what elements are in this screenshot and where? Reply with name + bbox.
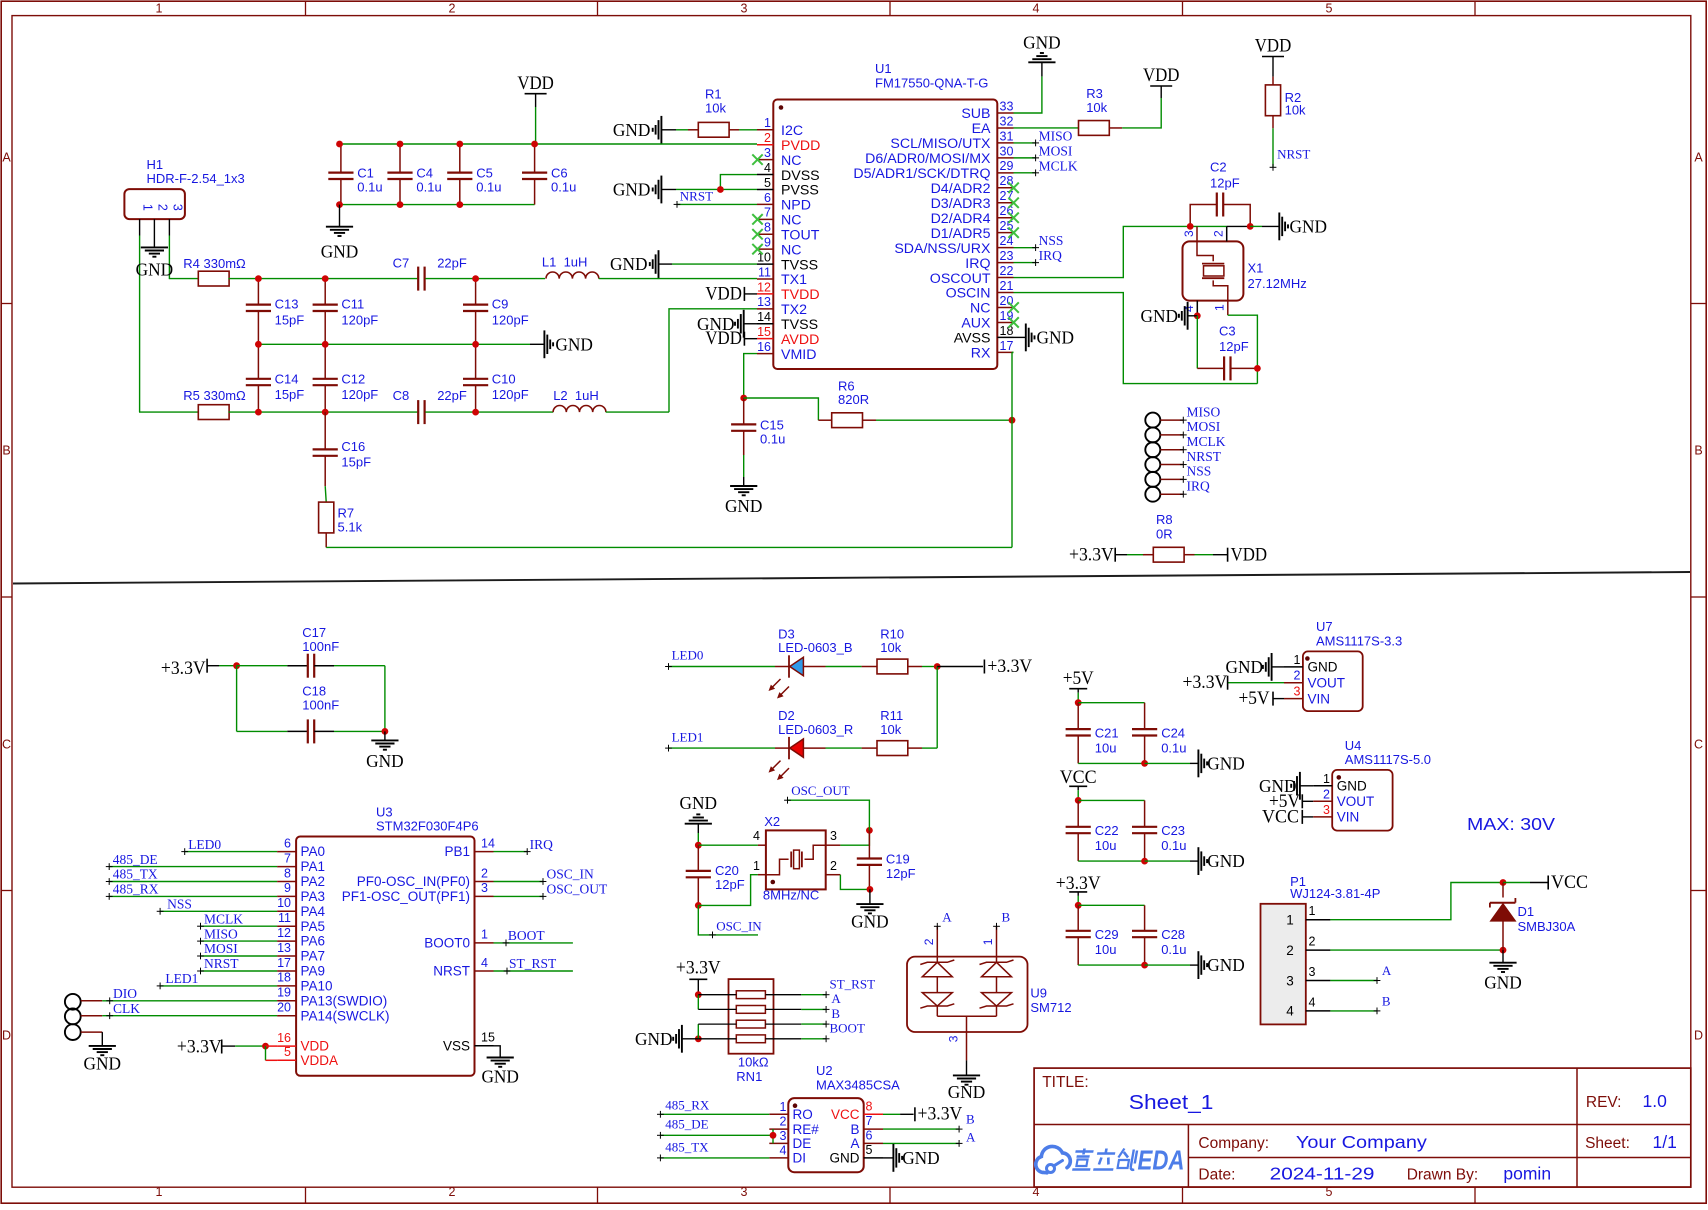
svg-text:100nF: 100nF (302, 698, 339, 713)
svg-text:BOOT: BOOT (830, 1021, 865, 1036)
svg-text:10: 10 (277, 896, 291, 910)
svg-text:1: 1 (1309, 904, 1316, 918)
svg-text:BOOT0: BOOT0 (424, 936, 470, 951)
svg-text:485_DE: 485_DE (665, 1116, 708, 1131)
svg-text:VCC: VCC (1551, 872, 1588, 893)
svg-text:VDD: VDD (301, 1039, 330, 1054)
svg-text:22pF: 22pF (437, 255, 467, 270)
svg-text:+5V: +5V (1063, 668, 1094, 689)
svg-text:12: 12 (757, 280, 771, 294)
svg-text:GND: GND (1207, 955, 1245, 975)
svg-text:GND: GND (902, 1148, 940, 1168)
svg-text:0.1u: 0.1u (357, 180, 382, 195)
svg-text:PF1-OSC_OUT(PF1): PF1-OSC_OUT(PF1) (342, 889, 470, 904)
svg-text:TVDD: TVDD (781, 287, 820, 303)
svg-text:5: 5 (1326, 2, 1333, 16)
svg-text:1: 1 (156, 1185, 163, 1199)
svg-text:NC: NC (781, 242, 802, 258)
svg-text:ST_RST: ST_RST (830, 976, 876, 991)
svg-text:NRST: NRST (680, 188, 713, 203)
svg-text:D3/ADR3: D3/ADR3 (931, 196, 991, 212)
svg-text:VIN: VIN (1337, 810, 1360, 825)
svg-text:WJ124-3.81-4P: WJ124-3.81-4P (1290, 886, 1380, 901)
svg-text:7: 7 (284, 851, 291, 865)
svg-text:GND: GND (555, 334, 593, 354)
svg-text:13: 13 (277, 941, 291, 955)
svg-text:C17: C17 (302, 625, 326, 640)
svg-text:Drawn By:: Drawn By: (1407, 1167, 1479, 1184)
svg-text:10u: 10u (1095, 838, 1117, 853)
svg-text:VCC: VCC (1060, 767, 1097, 788)
svg-text:PA14(SWCLK): PA14(SWCLK) (301, 1008, 390, 1023)
svg-text:22pF: 22pF (437, 388, 467, 403)
svg-text:OSCIN: OSCIN (946, 286, 991, 302)
svg-text:OSC_IN: OSC_IN (716, 918, 762, 933)
svg-text:MCLK: MCLK (204, 911, 243, 926)
svg-text:OSCOUT: OSCOUT (930, 271, 991, 287)
svg-text:820R: 820R (838, 392, 869, 407)
svg-text:NPD: NPD (781, 198, 811, 214)
svg-text:TOUT: TOUT (781, 227, 820, 243)
svg-text:C23: C23 (1161, 823, 1185, 838)
svg-text:1: 1 (764, 116, 771, 130)
svg-text:B: B (850, 1122, 859, 1137)
svg-text:VDD: VDD (517, 73, 554, 94)
svg-text:NC: NC (781, 213, 802, 229)
svg-text:13: 13 (757, 295, 771, 309)
svg-text:MCLK: MCLK (1039, 158, 1078, 173)
svg-text:3: 3 (1309, 965, 1316, 979)
svg-text:2: 2 (1294, 669, 1301, 683)
svg-text:VMID: VMID (781, 347, 816, 363)
svg-text:3: 3 (1182, 230, 1196, 237)
svg-text:0.1u: 0.1u (1161, 838, 1186, 853)
svg-text:23: 23 (1000, 249, 1014, 263)
svg-text:RO: RO (793, 1107, 813, 1122)
svg-text:C5: C5 (476, 165, 493, 180)
svg-text:GND: GND (1337, 779, 1367, 794)
svg-text:PA4: PA4 (301, 904, 326, 919)
svg-text:A: A (2, 151, 11, 165)
svg-text:10u: 10u (1095, 740, 1117, 755)
svg-text:I2C: I2C (781, 123, 803, 139)
svg-text:8: 8 (764, 221, 771, 235)
svg-text:0R: 0R (1156, 527, 1173, 542)
svg-text:18: 18 (277, 971, 291, 985)
svg-text:30: 30 (1000, 144, 1014, 158)
svg-text:MISO: MISO (1187, 404, 1221, 419)
svg-text:12pF: 12pF (1210, 175, 1240, 190)
svg-text:2024-11-29: 2024-11-29 (1270, 1164, 1375, 1184)
svg-text:A: A (1694, 151, 1703, 165)
svg-text:C15: C15 (760, 417, 784, 432)
svg-text:12pF: 12pF (1219, 339, 1249, 354)
svg-text:VDD: VDD (705, 283, 742, 304)
svg-text:PA5: PA5 (301, 919, 326, 934)
svg-text:MAX: 30V: MAX: 30V (1467, 814, 1555, 834)
svg-text:GND: GND (1207, 851, 1245, 871)
svg-text:LED-0603_B: LED-0603_B (778, 640, 852, 655)
svg-text:GND: GND (725, 496, 763, 516)
svg-text:LED0: LED0 (188, 837, 221, 852)
svg-text:5: 5 (764, 176, 771, 190)
svg-text:AMS1117S-3.3: AMS1117S-3.3 (1316, 633, 1402, 648)
svg-text:11: 11 (758, 265, 771, 279)
svg-text:16: 16 (757, 340, 771, 354)
svg-text:C13: C13 (275, 297, 299, 312)
svg-text:A: A (1382, 963, 1392, 978)
svg-text:+3.3V: +3.3V (1183, 672, 1228, 693)
svg-text:U1: U1 (875, 61, 892, 76)
svg-text:AUX: AUX (961, 316, 991, 332)
svg-text:BOOT: BOOT (508, 928, 546, 943)
svg-text:pomin: pomin (1503, 1164, 1551, 1184)
svg-text:3: 3 (1323, 803, 1330, 817)
svg-text:10k: 10k (1285, 102, 1306, 117)
svg-text:NSS: NSS (1187, 464, 1212, 479)
svg-text:10k: 10k (880, 640, 901, 655)
svg-text:EDA: EDA (1138, 1145, 1185, 1176)
svg-text:GND: GND (1207, 753, 1245, 773)
svg-text:C4: C4 (416, 165, 433, 180)
svg-text:MISO: MISO (204, 926, 238, 941)
svg-text:1: 1 (156, 2, 163, 16)
svg-text:X2: X2 (764, 814, 780, 829)
svg-text:IRQ: IRQ (1187, 479, 1211, 494)
svg-text:3: 3 (830, 829, 837, 843)
svg-text:1/1: 1/1 (1653, 1132, 1677, 1152)
svg-text:3: 3 (1294, 685, 1301, 699)
svg-text:GND: GND (481, 1067, 519, 1087)
svg-text:1: 1 (1286, 913, 1294, 928)
svg-text:1: 1 (141, 204, 155, 211)
svg-text:+3.3V: +3.3V (177, 1037, 222, 1058)
svg-text:A: A (966, 1130, 976, 1145)
svg-text:0.1u: 0.1u (1161, 740, 1186, 755)
svg-text:LED0: LED0 (672, 648, 704, 663)
svg-text:PA13(SWDIO): PA13(SWDIO) (301, 993, 388, 1008)
svg-text:MOSI: MOSI (1039, 143, 1073, 158)
svg-text:6: 6 (284, 836, 291, 850)
svg-text:R1: R1 (705, 86, 722, 101)
svg-text:1: 1 (481, 928, 488, 942)
svg-text:2: 2 (1323, 787, 1330, 801)
svg-text:4: 4 (1309, 995, 1316, 1009)
svg-text:L1 1uH: L1 1uH (542, 254, 588, 269)
svg-text:B: B (1694, 444, 1702, 458)
svg-text:VIN: VIN (1308, 691, 1331, 706)
svg-text:DI: DI (793, 1151, 807, 1166)
svg-text:19: 19 (277, 986, 291, 1000)
svg-text:100nF: 100nF (302, 639, 339, 654)
svg-text:STM32F030F4P6: STM32F030F4P6 (376, 819, 479, 834)
svg-text:7: 7 (764, 206, 771, 220)
svg-text:10k: 10k (880, 722, 901, 737)
svg-text:SCL/MISO/UTX: SCL/MISO/UTX (890, 136, 991, 152)
svg-text:+3.3V: +3.3V (918, 1104, 963, 1125)
svg-text:D4/ADR2: D4/ADR2 (931, 181, 991, 197)
svg-text:U9: U9 (1030, 985, 1047, 1000)
svg-text:C18: C18 (302, 684, 326, 699)
svg-text:1: 1 (1323, 772, 1330, 786)
svg-text:PA9: PA9 (301, 964, 326, 979)
svg-text:ST_RST: ST_RST (509, 956, 557, 971)
svg-text:10: 10 (757, 250, 771, 264)
svg-text:C8: C8 (393, 388, 410, 403)
svg-text:C3: C3 (1219, 323, 1236, 338)
svg-text:SDA/NSS/URX: SDA/NSS/URX (894, 241, 991, 257)
svg-text:12pF: 12pF (715, 877, 745, 892)
svg-text:SMBJ30A: SMBJ30A (1518, 919, 1576, 934)
svg-text:GND: GND (1308, 660, 1338, 675)
svg-text:12pF: 12pF (886, 866, 916, 881)
svg-text:17: 17 (277, 956, 291, 970)
svg-text:+3.3V: +3.3V (987, 656, 1032, 677)
svg-text:Sheet:: Sheet: (1585, 1135, 1630, 1152)
svg-text:6: 6 (866, 1129, 873, 1143)
svg-text:HDR-F-2.54_1x3: HDR-F-2.54_1x3 (147, 171, 245, 186)
svg-text:TX1: TX1 (781, 272, 807, 288)
svg-text:485_TX: 485_TX (113, 867, 158, 882)
svg-text:FM17550-QNA-T-G: FM17550-QNA-T-G (875, 76, 988, 91)
svg-text:+5V: +5V (1239, 688, 1270, 709)
svg-text:9: 9 (284, 881, 291, 895)
svg-text:R5 330mΩ: R5 330mΩ (183, 388, 246, 403)
svg-text:9: 9 (764, 236, 771, 250)
svg-text:A: A (850, 1136, 859, 1151)
svg-text:GND: GND (1226, 657, 1264, 677)
svg-text:GND: GND (610, 254, 648, 274)
svg-text:2: 2 (481, 866, 488, 880)
svg-text:3: 3 (481, 881, 488, 895)
svg-text:U2: U2 (816, 1063, 833, 1078)
svg-text:8: 8 (284, 866, 291, 880)
svg-text:1: 1 (753, 859, 760, 873)
svg-text:VDD: VDD (705, 328, 742, 349)
svg-text:L2 1uH: L2 1uH (553, 388, 599, 403)
svg-text:29: 29 (1000, 159, 1014, 173)
svg-text:GND: GND (366, 751, 404, 771)
svg-text:5: 5 (866, 1143, 873, 1157)
svg-text:10u: 10u (1095, 942, 1117, 957)
svg-text:Sheet_1: Sheet_1 (1129, 1091, 1214, 1114)
svg-text:2: 2 (830, 859, 837, 873)
svg-text:3: 3 (1286, 973, 1294, 988)
svg-text:4: 4 (481, 956, 488, 970)
svg-text:15pF: 15pF (275, 312, 305, 327)
svg-text:TX2: TX2 (781, 302, 807, 318)
svg-text:C11: C11 (341, 297, 364, 312)
svg-text:GND: GND (1141, 306, 1179, 326)
svg-text:C29: C29 (1095, 927, 1119, 942)
svg-text:4: 4 (753, 829, 760, 843)
svg-text:3: 3 (764, 146, 771, 160)
svg-text:PA2: PA2 (301, 874, 326, 889)
svg-text:VOUT: VOUT (1337, 794, 1375, 809)
svg-text:33: 33 (1000, 99, 1014, 113)
svg-text:C2: C2 (1210, 159, 1227, 174)
svg-text:AVDD: AVDD (781, 332, 819, 348)
svg-text:C12: C12 (341, 371, 365, 386)
svg-text:IRQ: IRQ (1039, 248, 1063, 263)
svg-text:D1: D1 (1518, 904, 1535, 919)
svg-text:27.12MHz: 27.12MHz (1248, 276, 1307, 291)
svg-text:485_RX: 485_RX (665, 1097, 710, 1112)
svg-text:C16: C16 (341, 439, 365, 454)
svg-text:2: 2 (1309, 935, 1316, 949)
svg-text:PA10: PA10 (301, 979, 333, 994)
svg-text:D: D (2, 1029, 11, 1043)
svg-text:MOSI: MOSI (204, 941, 238, 956)
svg-text:2: 2 (155, 204, 169, 211)
svg-text:LED-0603_R: LED-0603_R (778, 722, 853, 737)
svg-text:R7: R7 (338, 506, 355, 521)
svg-text:22: 22 (1000, 264, 1014, 278)
svg-text:U3: U3 (376, 805, 393, 820)
svg-text:NC: NC (970, 301, 991, 317)
svg-text:MOSI: MOSI (1187, 419, 1221, 434)
svg-text:C28: C28 (1161, 927, 1185, 942)
svg-text:SM712: SM712 (1030, 1000, 1071, 1015)
svg-text:NRST: NRST (204, 956, 239, 971)
svg-text:OSC_IN: OSC_IN (547, 867, 595, 882)
svg-text:0.1u: 0.1u (1161, 942, 1186, 957)
svg-text:NRST: NRST (433, 964, 470, 979)
svg-text:C21: C21 (1095, 725, 1119, 740)
svg-text:15pF: 15pF (275, 387, 305, 402)
svg-text:GND: GND (613, 120, 651, 140)
svg-text:C19: C19 (886, 851, 910, 866)
svg-text:C14: C14 (275, 371, 299, 386)
svg-text:1: 1 (981, 938, 995, 945)
svg-text:+3.3V: +3.3V (1069, 545, 1114, 566)
svg-text:RX: RX (971, 346, 991, 362)
svg-text:2: 2 (922, 938, 936, 945)
svg-text:4: 4 (1286, 1004, 1294, 1019)
svg-text:H1: H1 (147, 157, 164, 172)
svg-text:1: 1 (780, 1100, 787, 1114)
svg-text:RN1: RN1 (736, 1069, 762, 1084)
svg-text:0.1u: 0.1u (551, 180, 576, 195)
svg-text:IRQ: IRQ (530, 837, 554, 852)
svg-text:NSS: NSS (1039, 233, 1064, 248)
svg-text:MAX3485CSA: MAX3485CSA (816, 1078, 900, 1093)
svg-text:485_DE: 485_DE (113, 852, 158, 867)
svg-text:3: 3 (947, 1035, 961, 1042)
svg-text:VCC: VCC (1262, 806, 1299, 827)
svg-text:14: 14 (757, 310, 771, 324)
svg-text:NSS: NSS (167, 897, 192, 912)
svg-text:LED1: LED1 (165, 971, 198, 986)
svg-text:16: 16 (277, 1031, 291, 1045)
svg-text:PA0: PA0 (301, 844, 326, 859)
svg-text:B: B (1382, 993, 1391, 1008)
svg-text:B: B (966, 1112, 975, 1127)
svg-text:GND: GND (1290, 216, 1328, 236)
svg-text:R4 330mΩ: R4 330mΩ (183, 256, 246, 271)
svg-text:2: 2 (780, 1115, 787, 1129)
svg-text:MISO: MISO (1039, 129, 1073, 144)
svg-text:C6: C6 (551, 165, 568, 180)
svg-text:GND: GND (635, 1029, 673, 1049)
svg-text:0.1u: 0.1u (760, 432, 785, 447)
svg-text:10k: 10k (1086, 100, 1107, 115)
svg-text:3: 3 (170, 204, 184, 211)
svg-text:PVDD: PVDD (781, 138, 820, 154)
svg-text:VDD: VDD (1255, 36, 1292, 57)
svg-text:IRQ: IRQ (965, 256, 990, 272)
svg-text:B: B (831, 1006, 840, 1021)
svg-text:GND: GND (136, 260, 174, 280)
svg-text:AMS1117S-5.0: AMS1117S-5.0 (1345, 752, 1431, 767)
svg-text:NRST: NRST (1277, 147, 1310, 162)
svg-text:120pF: 120pF (341, 387, 378, 402)
svg-text:+3.3V: +3.3V (1056, 873, 1101, 894)
svg-text:5: 5 (284, 1045, 291, 1059)
svg-text:3: 3 (780, 1129, 787, 1143)
svg-text:+3.3V: +3.3V (161, 658, 206, 679)
svg-text:NRST: NRST (1187, 449, 1222, 464)
svg-text:GND: GND (1037, 327, 1075, 347)
svg-text:Your Company: Your Company (1296, 1132, 1427, 1152)
svg-text:1: 1 (1213, 304, 1227, 311)
svg-text:R8: R8 (1156, 512, 1173, 527)
svg-text:3: 3 (741, 1185, 748, 1199)
svg-text:VDD: VDD (1231, 545, 1268, 566)
svg-text:15: 15 (757, 325, 771, 339)
svg-text:8MHz/NC: 8MHz/NC (763, 887, 819, 902)
svg-text:PVSS: PVSS (781, 183, 819, 199)
svg-text:D: D (1694, 1029, 1703, 1043)
svg-text:PB1: PB1 (444, 844, 470, 859)
svg-text:X1: X1 (1248, 261, 1264, 276)
svg-text:4: 4 (1033, 2, 1040, 16)
svg-text:B: B (2, 444, 10, 458)
svg-text:2: 2 (449, 1185, 456, 1199)
svg-text:GND: GND (830, 1151, 860, 1166)
svg-text:R3: R3 (1086, 86, 1103, 101)
svg-text:D1/ADR5: D1/ADR5 (931, 226, 991, 242)
svg-text:120pF: 120pF (492, 312, 529, 327)
svg-text:EA: EA (972, 121, 991, 137)
svg-text:120pF: 120pF (341, 312, 378, 327)
svg-text:21: 21 (1000, 279, 1014, 293)
svg-text:+3.3V: +3.3V (676, 958, 721, 979)
svg-text:4: 4 (780, 1144, 787, 1158)
svg-text:D5/ADR1/SCK/DTRQ: D5/ADR1/SCK/DTRQ (853, 166, 990, 182)
svg-text:C24: C24 (1161, 725, 1185, 740)
svg-text:U7: U7 (1316, 619, 1333, 634)
svg-text:GND: GND (613, 179, 651, 199)
svg-text:5.1k: 5.1k (338, 520, 363, 535)
svg-text:GND: GND (321, 242, 359, 262)
svg-text:2: 2 (764, 131, 771, 145)
svg-text:1.0: 1.0 (1643, 1091, 1668, 1111)
svg-text:B: B (1002, 910, 1011, 925)
svg-text:VOUT: VOUT (1308, 676, 1346, 691)
svg-text:2: 2 (1212, 230, 1226, 237)
svg-text:VDDA: VDDA (301, 1053, 339, 1068)
svg-text:PA6: PA6 (301, 934, 326, 949)
svg-text:Company:: Company: (1198, 1135, 1269, 1152)
svg-text:VDD: VDD (1143, 65, 1180, 86)
svg-text:C10: C10 (492, 371, 516, 386)
svg-text:485_RX: 485_RX (113, 882, 159, 897)
svg-text:GND: GND (1484, 973, 1522, 993)
svg-text:6: 6 (764, 191, 771, 205)
svg-text:2: 2 (1286, 943, 1294, 958)
svg-text:485_TX: 485_TX (665, 1139, 709, 1154)
